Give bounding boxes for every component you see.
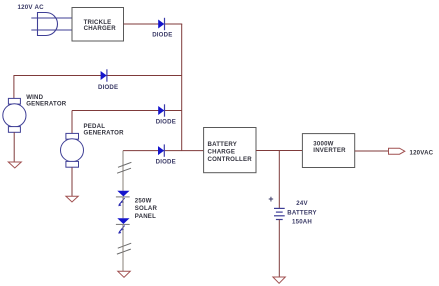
- svg-text:DIODE: DIODE: [156, 159, 176, 166]
- label 250W SOLAR PANEL: [135, 198, 158, 220]
- svg-text:250W: 250W: [135, 198, 152, 205]
- ground wind: [8, 162, 21, 168]
- svg-text:24V: 24V: [296, 200, 308, 207]
- ground battery: [273, 277, 285, 283]
- svg-text:150AH: 150AH: [292, 219, 312, 226]
- wire solar branch horizontal: [123, 150, 204, 152]
- diode D1: [152, 18, 172, 39]
- svg-text:CHARGER: CHARGER: [84, 25, 117, 32]
- label 120VAC: [410, 150, 434, 157]
- svg-text:CHARGE: CHARGE: [208, 148, 236, 155]
- wire plug lower prong: [31, 29, 72, 31]
- wire solar cells middle: [122, 197, 124, 218]
- svg-text:PANEL: PANEL: [135, 213, 156, 220]
- solar panel PV1 break upper: [117, 162, 131, 173]
- wire bus vertical: [181, 24, 183, 151]
- wire pedal branch horizontal: [72, 110, 182, 112]
- svg-text:DIODE: DIODE: [152, 32, 172, 39]
- svg-text:INVERTER: INVERTER: [313, 147, 346, 154]
- pedal generator G2: [61, 123, 125, 167]
- wire wind branch horizontal: [14, 75, 182, 77]
- svg-text:+: +: [268, 194, 273, 204]
- wire wind gen to ground: [13, 132, 15, 162]
- inverter U3: [302, 134, 354, 168]
- wire trickle output: [124, 23, 183, 25]
- svg-text:GENERATOR: GENERATOR: [84, 129, 125, 136]
- ground pedal: [66, 196, 78, 202]
- svg-text:CONTROLLER: CONTROLLER: [208, 156, 253, 163]
- diode D3: [156, 104, 176, 125]
- wire battery to ground: [278, 220, 280, 278]
- svg-text:DIODE: DIODE: [156, 119, 176, 126]
- ground solar: [118, 271, 130, 277]
- wire solar column upper: [122, 151, 124, 191]
- svg-text:SOLAR: SOLAR: [135, 205, 158, 212]
- wire battery drop: [278, 151, 280, 209]
- wire controller to inverter: [256, 150, 302, 152]
- wire wind branch vertical: [13, 76, 15, 100]
- svg-text:GENERATOR: GENERATOR: [26, 100, 67, 107]
- svg-text:120V AC: 120V AC: [18, 4, 45, 11]
- solar panel PV1 break lower: [117, 243, 131, 254]
- svg-text:120VAC: 120VAC: [410, 150, 434, 157]
- diode D2: [98, 69, 118, 91]
- node 120V AC label: [18, 4, 45, 11]
- wire pedal gen to ground: [71, 167, 73, 196]
- solar cell PV1b: [116, 218, 130, 234]
- wire plug upper prong: [31, 17, 72, 19]
- svg-text:BATTERY: BATTERY: [287, 209, 317, 216]
- wire inverter output: [355, 150, 389, 152]
- battery BT1: [268, 194, 316, 226]
- wind generator G1: [3, 94, 67, 132]
- trickle charger U1: [72, 8, 124, 42]
- solar cell PV1a: [116, 191, 130, 207]
- diode D4: [156, 144, 176, 165]
- svg-text:BATTERY: BATTERY: [208, 141, 238, 148]
- battery charge controller U2: [204, 128, 256, 173]
- wire solar to ground: [122, 224, 124, 271]
- connector J1: [389, 148, 405, 154]
- wire pedal branch vertical: [71, 111, 73, 135]
- svg-text:DIODE: DIODE: [98, 84, 118, 91]
- AC plug P1: [38, 13, 58, 36]
